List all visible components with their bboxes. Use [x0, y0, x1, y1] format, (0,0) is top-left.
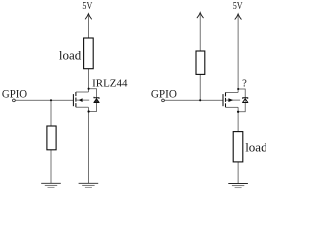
resistor: left load	[84, 38, 94, 69]
wire: right pull-up arrow to resistor	[199, 14, 201, 51]
wire: right load resistor to ground	[237, 162, 239, 184]
diode: left body diode	[94, 97, 99, 103]
junction: right diode top tee	[237, 88, 239, 90]
svg-text:5V: 5V	[233, 1, 243, 12]
wire: left source to ground	[87, 107, 89, 183]
wire: left 5V supply to load resistor	[87, 15, 89, 38]
svg-text:load: load	[59, 47, 82, 62]
resistor: right pull-up	[196, 51, 205, 74]
junction: left gate node	[50, 99, 52, 101]
wire: right GPIO to gate	[164, 99, 223, 101]
power arrow: right 5V	[235, 14, 241, 19]
svg-text:IRLZ44: IRLZ44	[92, 77, 128, 89]
transistor: IRLZ44 n-channel MOSFET	[73, 92, 89, 107]
wire: left load resistor to drain	[87, 69, 89, 92]
wire: right pull-up resistor to gate node	[199, 74, 201, 100]
wire: left body-diode branch	[88, 89, 96, 112]
wire: right source to load resistor	[237, 107, 239, 131]
svg-text:?: ?	[242, 79, 247, 90]
transistor: unknown p-channel MOSFET	[223, 92, 240, 107]
ground: left source	[79, 183, 99, 187]
junction: right gate node	[199, 99, 201, 101]
diode: right body diode	[243, 98, 248, 103]
wire: left pulldown resistor to ground	[50, 150, 52, 184]
svg-text:load: load	[245, 139, 266, 154]
junction: left diode bottom tee	[87, 110, 89, 112]
svg-text:5V: 5V	[82, 1, 92, 12]
resistor: left pulldown	[47, 126, 56, 150]
ground: left pulldown	[41, 183, 61, 187]
wire: right 5V supply to drain	[237, 16, 239, 90]
wire: right body-diode branch	[238, 89, 245, 112]
terminal: left GPIO	[13, 99, 16, 102]
terminal: right GPIO	[162, 99, 165, 102]
wire: left GPIO to gate	[15, 99, 73, 101]
wire: left pulldown branch down from gate node	[50, 100, 52, 126]
junction: left diode top tee	[88, 88, 90, 90]
power arrow: left 5V	[85, 14, 91, 19]
power arrow: right pull-up supply	[197, 13, 203, 18]
junction: right diode bottom tee	[237, 111, 239, 113]
resistor: right load	[233, 132, 243, 162]
svg-text:GPIO: GPIO	[2, 87, 28, 101]
svg-text:GPIO: GPIO	[151, 87, 177, 101]
ground: right load	[228, 184, 248, 188]
